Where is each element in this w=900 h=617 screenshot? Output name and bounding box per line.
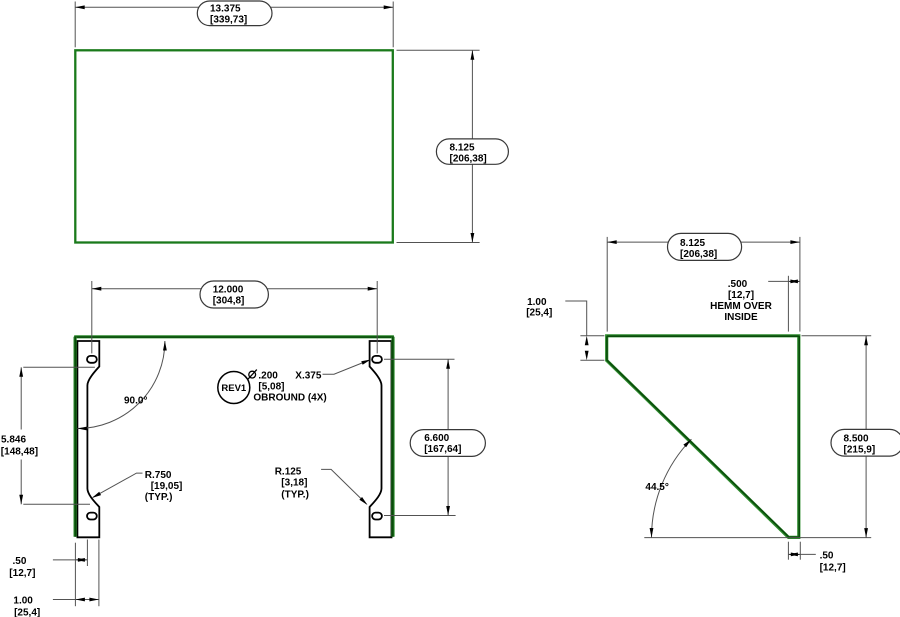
dim .50 side arrow left [788, 553, 798, 557]
dim 5.846 dimension line upper segment [20, 367, 22, 429]
dim 13.375 label stadium [197, 1, 272, 26]
svg-text:[25,4]: [25,4] [14, 607, 40, 617]
R.125 leader arrow [359, 497, 368, 506]
dim 8.125 top-view label stadium [436, 139, 508, 164]
front view green top edge [74, 335, 394, 338]
svg-text:1.00: 1.00 [527, 297, 547, 308]
REV1 balloon circle [218, 372, 250, 404]
dim 13.375 arrow left [75, 5, 85, 9]
R.125 leader [321, 469, 366, 504]
svg-text:R.125: R.125 [275, 467, 302, 478]
dim 8.125 side label stadium [668, 233, 742, 260]
svg-text:[206,38]: [206,38] [450, 153, 487, 164]
front view green right edge [391, 337, 394, 537]
svg-text:REV1: REV1 [221, 383, 247, 394]
svg-text:INSIDE: INSIDE [724, 312, 758, 323]
dim 13.375 arrow right [384, 5, 394, 9]
svg-text:[12,7]: [12,7] [820, 562, 846, 573]
dim 6.600 dimension line [447, 359, 449, 515]
svg-text:.50: .50 [13, 556, 27, 567]
dim 1.00 side leader [565, 301, 586, 336]
svg-text:[339,73]: [339,73] [210, 15, 247, 26]
dim .50 side arrow right [791, 553, 801, 557]
dim 8.125 side extension line right [799, 237, 801, 332]
svg-text:8.500: 8.500 [844, 434, 869, 445]
dim 8.125 side arrow left [607, 240, 617, 244]
dim 5.846 arrow down [19, 495, 23, 505]
side view green profile [607, 336, 799, 538]
dim 13.375 extension line right [392, 2, 394, 48]
44.5 arc arrow top [683, 438, 692, 447]
svg-text:12.000: 12.000 [213, 284, 244, 295]
svg-text:[215,9]: [215,9] [844, 445, 876, 456]
svg-text:8.125: 8.125 [680, 238, 705, 249]
svg-text:5.846: 5.846 [1, 435, 26, 446]
dim .50 front arrow right [78, 558, 88, 562]
90 degree arc arrow top [163, 341, 167, 351]
dim .50 front dimension line with tail [53, 559, 88, 561]
svg-text:.200: .200 [258, 370, 278, 381]
dim 8.125 top-view arrow up [471, 50, 475, 60]
svg-text:OBROUND (4X): OBROUND (4X) [253, 392, 326, 403]
dim 8.500 arrow down [864, 528, 868, 538]
dim 13.375 extension line left [74, 2, 76, 48]
dim 8.125 top-view dimension line [471, 50, 473, 242]
dim 12.000 extension line left (hole centerline) [91, 281, 93, 353]
dim 1.00 side extension line top [580, 335, 604, 337]
dim .50 side dimension line with tail [788, 553, 815, 555]
svg-text:6.600: 6.600 [424, 433, 449, 444]
svg-text:44.5°: 44.5° [645, 482, 668, 493]
dim 8.125 top-view extension line bottom [397, 242, 480, 244]
front view left leg outline [77, 341, 99, 537]
obround hole top-right [372, 356, 382, 363]
dim 5.846 arrow up [19, 367, 23, 377]
dim 1.00 front extension line outer right [98, 540, 100, 607]
dim 8.125 top-view arrow down [471, 233, 475, 243]
dim 5.846 extension line bottom [23, 503, 90, 505]
dim 8.500 label stadium [831, 429, 900, 456]
dim 12.000 label stadium [200, 281, 268, 308]
svg-text:[25,4]: [25,4] [526, 308, 552, 319]
svg-text:.50: .50 [820, 550, 834, 561]
dim 8.500 dimension line [865, 336, 867, 538]
dim 8.500 arrow up [864, 336, 868, 346]
front view right leg outline [370, 341, 392, 537]
dim .500 hem extension line inner [787, 276, 789, 332]
dim 8.125 side arrow right [790, 240, 800, 244]
dim 6.600 extension line top [384, 358, 455, 360]
90 degree angle arc [77, 341, 164, 429]
svg-text:[167,64]: [167,64] [424, 444, 461, 455]
dim .500 hem arrow left [788, 280, 798, 284]
dim 13.375 dimension line [75, 6, 393, 8]
dim 1.00 side arrow down [585, 351, 589, 361]
dim 6.600 extension line bottom [384, 515, 456, 517]
svg-text:R.750: R.750 [145, 470, 172, 481]
top view flange rectangle [75, 50, 393, 242]
dim .50 front arrow left [75, 558, 85, 562]
R.750 leader arrow [91, 492, 101, 500]
dim 8.125 top-view extension line top [397, 49, 480, 51]
44.5 degree angle arc [652, 439, 692, 537]
svg-text:X.375: X.375 [295, 370, 322, 381]
svg-text:13.375: 13.375 [210, 4, 241, 15]
dim 6.600 arrow down [446, 506, 450, 516]
dim .500 hem arrow right [790, 280, 800, 284]
diameter symbol [249, 371, 256, 378]
dim 8.500 extension line bottom / angle baseline [644, 537, 871, 539]
90 degree arc arrow bottom [77, 427, 87, 431]
dim 8.125 side extension line left [606, 237, 608, 332]
dim 5.846 extension line top [23, 366, 95, 368]
svg-text:[19,05]: [19,05] [151, 481, 183, 492]
svg-text:90.0°: 90.0° [124, 396, 147, 407]
svg-text:[304,8]: [304,8] [213, 296, 245, 307]
44.5 arc arrow bottom [650, 528, 654, 538]
svg-text:1.00: 1.00 [13, 596, 33, 607]
dim 5.846 dimension line lower segment [20, 460, 22, 505]
dim 1.00 front arrow left [75, 598, 85, 602]
svg-text:[3,18]: [3,18] [281, 478, 307, 489]
obround hole top-left [87, 356, 97, 363]
obround hole bottom-right [372, 513, 382, 520]
dim .50 side extension line left [787, 542, 789, 560]
svg-text:[5,08]: [5,08] [258, 381, 284, 392]
dim 6.600 arrow up [446, 359, 450, 369]
svg-text:[206,38]: [206,38] [680, 249, 717, 260]
dim 8.125 side dimension line [607, 241, 800, 243]
dim 6.600 label stadium [410, 430, 485, 457]
dim 1.00 front arrow right [89, 598, 99, 602]
dim 12.000 dimension line [92, 288, 377, 290]
dim 1.00 side extension line bottom [580, 359, 604, 361]
svg-text:8.125: 8.125 [450, 142, 475, 153]
X.375 leader [323, 360, 370, 374]
X.375 leader arrow [361, 358, 371, 365]
front view green left edge [73, 337, 76, 537]
dim .50 front extension line outer [74, 543, 76, 607]
dim 1.00 side arrow up [585, 336, 589, 346]
dim 12.000 arrow left [92, 287, 102, 291]
obround hole bottom-left [87, 513, 97, 520]
dim 1.00 front dimension line with tail [53, 599, 99, 601]
svg-text:[148,48]: [148,48] [1, 447, 38, 458]
R.750 leader [93, 473, 143, 497]
svg-text:(TYP.): (TYP.) [281, 490, 309, 501]
dim 12.000 extension line right (hole centerline) [376, 281, 378, 353]
svg-text:.500: .500 [728, 279, 748, 290]
dim 12.000 arrow right [368, 287, 378, 291]
dim .500 hem dimension line with tail [768, 280, 800, 282]
svg-text:[12,7]: [12,7] [9, 568, 35, 579]
svg-text:HEMM OVER: HEMM OVER [710, 301, 772, 312]
dim .50 side extension line right [799, 542, 801, 560]
dim 8.500 extension line top [802, 335, 872, 337]
svg-text:[12,7]: [12,7] [728, 290, 754, 301]
dim .50 front extension line inner [86, 540, 88, 567]
svg-text:(TYP.): (TYP.) [145, 492, 173, 503]
